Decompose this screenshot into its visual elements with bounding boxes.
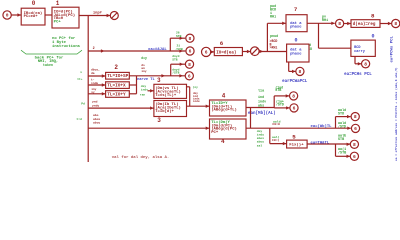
- labels aal C0=0: [272, 119, 280, 126]
- stub label t- indu: [91, 79, 98, 85]
- state2 output merge: [129, 74, 185, 94]
- state box 0b (data phase): [287, 44, 309, 62]
- svg-text:aal: aal: [257, 143, 263, 147]
- terminal 1a STB: [290, 92, 298, 100]
- state box 7 (data phase): [286, 15, 307, 32]
- svg-text:7: 7: [294, 6, 298, 13]
- svg-text:earve TL: earve TL: [137, 78, 155, 82]
- svg-text:indu: indu: [193, 99, 200, 103]
- svg-text:3: 3: [157, 77, 161, 84]
- state box 3 label: [157, 77, 161, 84]
- branch to aal1 /STB: [336, 144, 351, 158]
- svg-text:indu: indu: [91, 81, 98, 85]
- state box 3 (zp index): [154, 84, 187, 98]
- svg-text:t=d: t=d: [76, 117, 82, 121]
- wire T0 to state box 0: [11, 13, 21, 16]
- svg-text:8: 8: [299, 69, 302, 75]
- svg-text:/STB: /STB: [172, 70, 179, 74]
- state box 2 label: [114, 64, 118, 71]
- svg-text:2: 2: [93, 47, 95, 51]
- svg-text:6: 6: [293, 105, 296, 111]
- svg-text:RHi: RHi: [270, 15, 276, 20]
- note: no PC+ for 1 byte instructions: [52, 36, 81, 49]
- svg-text:TL=IO+X: TL=IO+X: [107, 84, 126, 89]
- label aal /STD: [338, 121, 346, 129]
- state box 2c TL=IO+Y: [106, 91, 130, 98]
- svg-text:iny: iny: [141, 69, 147, 73]
- svg-text:da: da: [91, 71, 95, 75]
- labels iny dey ind: [193, 85, 200, 103]
- svg-text:3: 3: [157, 117, 161, 124]
- terminal dny STB: [185, 60, 193, 68]
- state box 0 label: [32, 0, 36, 7]
- svg-text:phase: phase: [290, 51, 302, 56]
- svg-text:lia: lia: [258, 89, 264, 94]
- svg-text:STD: STD: [338, 112, 344, 116]
- svg-text:8: 8: [188, 62, 191, 68]
- net label ea=PCWs PCL (vertical): [390, 35, 394, 62]
- state box 8 label: [371, 13, 375, 20]
- wire box0 to box1: [45, 14, 52, 16]
- svg-text:PC=ea+: PC=ea+: [24, 15, 39, 19]
- wire bus to box3b: [88, 106, 154, 109]
- stub wire t- indu: [88, 83, 105, 86]
- svg-text:ind: ind: [258, 95, 264, 100]
- svg-text:4: 4: [222, 92, 226, 99]
- green label Pd: [81, 101, 85, 105]
- state box 0b label: [294, 38, 297, 44]
- svg-text:STB: STB: [275, 89, 281, 93]
- green label t=d: [76, 117, 82, 121]
- terminal 26 STB: [186, 34, 194, 42]
- svg-text:8: 8: [338, 21, 341, 27]
- svg-text:6: 6: [188, 73, 191, 79]
- wire box5 to terminals: [307, 143, 350, 146]
- svg-text:inp#: inp#: [93, 11, 102, 16]
- svg-text:PC+: PC+: [54, 20, 62, 24]
- green label tt+: [77, 78, 83, 81]
- junction up to box7: [267, 22, 285, 52]
- bus labels ynd yndy: [92, 100, 99, 108]
- state box 2b TL=IO+X: [106, 82, 130, 89]
- svg-text:ea = effective address = PCH:P: ea = effective address = PCH:PCL + index…: [394, 67, 398, 161]
- terminal aalE STB: [350, 140, 358, 148]
- state box 7 label: [294, 6, 298, 13]
- svg-text:ea=[Wb]TL: ea=[Wb]TL: [311, 124, 333, 129]
- label 1a /STD: [276, 100, 284, 107]
- wire box7 to terminal: [307, 22, 335, 25]
- stub label dbus da: [91, 67, 100, 75]
- svg-text:STB: STB: [338, 138, 344, 142]
- state box 4b label: [221, 138, 225, 145]
- svg-text:4: 4: [221, 138, 225, 145]
- svg-text:8: 8: [364, 61, 367, 67]
- labels dey indy abox aboy aal: [257, 129, 264, 147]
- red labels ds an iny: [141, 63, 147, 73]
- terminal STP (slashed): [110, 12, 118, 20]
- svg-text:C0=(: C0=(: [272, 138, 280, 142]
- svg-text:6: 6: [353, 154, 356, 160]
- svg-text:dey: dey: [141, 84, 147, 88]
- label aalE STB: [338, 133, 346, 142]
- label 1a STB: [275, 85, 283, 93]
- svg-text:8: 8: [353, 142, 356, 148]
- svg-text:0: 0: [32, 0, 36, 7]
- svg-text:2: 2: [114, 64, 118, 71]
- state box 4 (abs addr): [210, 100, 247, 116]
- svg-text:/STD: /STD: [276, 103, 284, 107]
- note val for dal dey: [112, 155, 170, 160]
- state box 8 (write): [351, 20, 380, 28]
- net label xa=#&JAL: [148, 48, 167, 52]
- terminal BCD out: [362, 60, 370, 68]
- stub wire dbus: [88, 74, 105, 77]
- svg-text:/STD: /STD: [338, 125, 346, 129]
- svg-text:0: 0: [294, 38, 297, 44]
- BCD box label 0: [371, 34, 374, 40]
- wire to box6: [211, 50, 215, 53]
- terminal aal STD: [351, 113, 359, 121]
- svg-text:T=Ib[d)+: T=Ib[d)+: [155, 109, 174, 114]
- net label ea=[Wb]TL: [311, 124, 333, 129]
- svg-text:RHi: RHi: [322, 18, 328, 23]
- label dny /STB: [172, 67, 179, 74]
- state box 5 (fix): [287, 140, 308, 148]
- wire box6 to phi: [242, 50, 250, 53]
- wire box8 to terminal: [380, 22, 392, 25]
- margin note ea effective (vertical): [394, 67, 398, 161]
- wire box4b to aal terminals: [246, 127, 351, 130]
- terminal aal1 /STB: [350, 152, 358, 160]
- wire bus to box4b: [88, 127, 209, 130]
- svg-text:IO=d(ea): IO=d(ea): [216, 50, 236, 55]
- svg-text:ynd: ynd: [92, 100, 98, 104]
- net label earPCWaPCL: [282, 80, 308, 84]
- label pnud: [270, 34, 278, 39]
- svg-text:earPCWaPCL: earPCWaPCL: [282, 80, 308, 84]
- labels >BCD B >RHi: [270, 39, 278, 50]
- svg-text:STB: STB: [176, 35, 182, 38]
- label aal STD: [338, 108, 346, 117]
- svg-text:instructions: instructions: [52, 44, 81, 49]
- bus wire (decode fanout): [87, 16, 89, 163]
- wire phi to box 0: [259, 51, 287, 53]
- terminal 21 /STB: [186, 47, 194, 55]
- label 21 /STB: [176, 44, 183, 51]
- svg-text:8: 8: [394, 21, 397, 27]
- state box 4 label: [222, 92, 226, 99]
- svg-text:indy: indy: [257, 133, 264, 137]
- svg-text:indv: indv: [141, 87, 148, 91]
- terminal 0b out: [296, 67, 304, 75]
- terminal dny /STB: [185, 72, 193, 80]
- terminal aal /STD: [351, 124, 359, 132]
- svg-text:>RHi: >RHi: [270, 46, 278, 50]
- state box 6 label: [220, 40, 224, 47]
- svg-text:val for dal dey, alsa A.: val for dal dey, alsa A.: [112, 155, 170, 160]
- net label ea=[Mb]AL: [248, 111, 276, 116]
- svg-text:xy: xy: [91, 91, 95, 94]
- terminal T0 (reset entry): [3, 11, 11, 19]
- terminal 1a /STD: [290, 104, 298, 112]
- branch down to box5: [270, 128, 287, 145]
- box 0b output: [289, 62, 296, 73]
- svg-text:TL=IO+Y: TL=IO+Y: [107, 92, 126, 97]
- svg-text:abox: abox: [257, 136, 264, 140]
- svg-text:8: 8: [189, 36, 192, 42]
- BCD box output: [355, 56, 361, 65]
- terminal 8 right: [392, 19, 400, 27]
- svg-text:C0=0: C0=0: [272, 122, 280, 126]
- svg-text:TL=IO+SP: TL=IO+SP: [107, 74, 128, 79]
- net label ea=PCHs PCL: [344, 73, 372, 77]
- label aal1 /STB: [338, 147, 346, 156]
- svg-text:ea=PCWs PCL: ea=PCWs PCL: [390, 35, 394, 62]
- wire to box8: [344, 22, 351, 25]
- svg-text:abo: abo: [93, 113, 99, 117]
- svg-text:ran: ran: [140, 94, 146, 97]
- wire box1 to STP terminal: [79, 14, 110, 17]
- phi terminal (slashed): [251, 47, 264, 56]
- junction box4 down: [250, 108, 252, 129]
- wire label 2: [93, 47, 95, 51]
- label dny STB: [172, 54, 179, 61]
- svg-text:0: 0: [6, 13, 9, 19]
- branch to dny STB: [171, 62, 185, 75]
- labels aal C0: [272, 135, 280, 142]
- label 26 STB: [176, 31, 182, 38]
- svg-text:8: 8: [371, 13, 375, 20]
- svg-text:xa=#&JAL: xa=#&JAL: [148, 48, 167, 52]
- svg-text:(ny: (ny: [193, 85, 198, 89]
- brace: [21, 50, 82, 54]
- svg-text:Fix()+: Fix()+: [289, 142, 304, 147]
- svg-text:taken: taken: [43, 63, 53, 67]
- note: back PC+ for NMI IRQ taken: [35, 56, 64, 67]
- svg-text:6: 6: [220, 40, 224, 47]
- branch to aal STD: [336, 115, 351, 128]
- state box 2a TL=IO+SP: [106, 72, 130, 79]
- svg-text:/STB: /STB: [338, 151, 346, 156]
- svg-text:dey: dey: [257, 129, 263, 133]
- svg-text:STB: STB: [172, 59, 178, 62]
- labels pd BCD: [306, 43, 312, 52]
- svg-text:1: 1: [56, 0, 60, 7]
- state box 3b label: [157, 117, 161, 124]
- svg-text:yndy: yndy: [92, 103, 99, 107]
- labels pwd BCD i RHi: [270, 4, 276, 20]
- svg-text:6: 6: [354, 126, 357, 132]
- svg-text:abs: abs: [258, 104, 264, 109]
- state box 5 label: [292, 134, 296, 141]
- net label inp#: [93, 11, 102, 16]
- box3 input stub: [148, 89, 154, 92]
- labels lia ind indv abs: [258, 89, 266, 109]
- wire junction to BCD box: [319, 23, 351, 48]
- state box 0 (IR fetch): [21, 8, 45, 25]
- state box 4b (pc addr): [210, 119, 247, 139]
- labels pv RHi: [322, 15, 328, 23]
- svg-text:phase: phase: [290, 24, 302, 29]
- stub label iny xy: [91, 87, 96, 94]
- svg-text:0: 0: [371, 34, 374, 40]
- wire box4 to terminals: [246, 94, 290, 109]
- state box 1 (decode): [52, 7, 79, 28]
- green label v: [80, 71, 82, 74]
- net label earve TL: [137, 78, 155, 82]
- svg-text:carry: carry: [354, 49, 366, 54]
- svg-text:v: v: [80, 71, 82, 74]
- wire state2 (bus to terminals): [88, 37, 185, 53]
- svg-text:ea=TH&TL: ea=TH&TL: [311, 141, 330, 145]
- terminal 8 mid: [336, 19, 344, 27]
- state box 6 (IO=d(ea)): [214, 48, 242, 56]
- svg-text:8: 8: [354, 114, 357, 120]
- svg-text:|ABeg(d+TL): |ABeg(d+TL): [211, 108, 237, 113]
- svg-text:d(ea)=reg: d(ea)=reg: [353, 22, 376, 27]
- wire box3 to box4: [187, 87, 210, 108]
- stub wire xy: [88, 92, 105, 95]
- BCD carry box: [351, 40, 375, 56]
- box3 left labels: [140, 84, 148, 97]
- svg-text:6: 6: [205, 49, 208, 55]
- state box 3b (ind index): [154, 101, 187, 117]
- terminal 6 in: [202, 47, 211, 56]
- bus labels abo abox aboy: [93, 113, 100, 125]
- svg-text:ea=PCHs PCL: ea=PCHs PCL: [344, 73, 372, 77]
- svg-text:PC+: PC+: [211, 131, 219, 135]
- svg-text:/STB: /STB: [176, 47, 183, 51]
- svg-text:d=y: d=y: [141, 56, 147, 60]
- state box 1 label: [56, 0, 60, 7]
- svg-text:aboy: aboy: [257, 140, 264, 144]
- svg-text:6: 6: [189, 49, 192, 55]
- green label d=y: [141, 56, 147, 60]
- svg-text:8: 8: [292, 93, 295, 99]
- svg-text:dnyd: dnyd: [172, 54, 179, 58]
- net label ea=TH&TL: [311, 141, 330, 145]
- svg-text:aboy: aboy: [93, 121, 100, 125]
- svg-text:tt+: tt+: [77, 78, 83, 81]
- svg-text:abox: abox: [93, 117, 100, 121]
- svg-text:T=vs(TL)+: T=vs(TL)+: [155, 93, 177, 98]
- svg-text:Pd: Pd: [81, 101, 85, 105]
- svg-text:dbus,: dbus,: [91, 67, 100, 71]
- svg-text:ean[Mb](AL): ean[Mb](AL): [248, 111, 276, 116]
